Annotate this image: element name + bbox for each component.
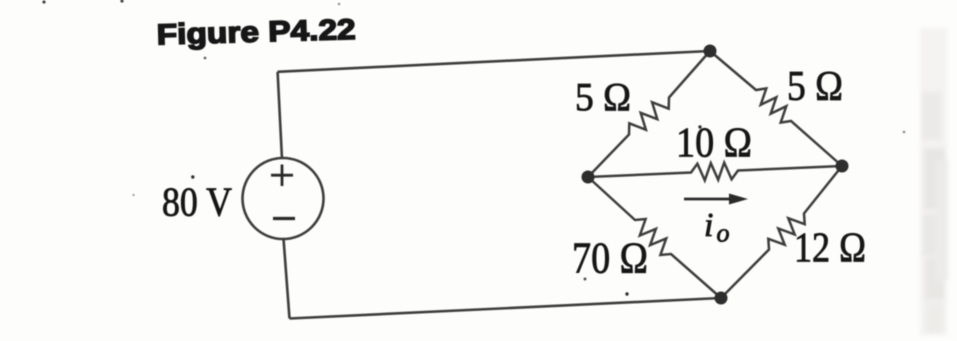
current arrow io	[684, 198, 733, 201]
svg-text:i: i	[704, 207, 713, 244]
node top	[704, 45, 717, 58]
scan smudge right edge	[920, 28, 948, 335]
wire left vertical upper	[278, 72, 282, 159]
resistor R2 5ohm top-right arm	[710, 51, 842, 166]
plus sign	[271, 165, 293, 187]
svg-text:o: o	[717, 219, 730, 248]
node left	[582, 171, 595, 184]
resistor R3 10ohm middle	[588, 163, 842, 181]
wire left vertical lower	[284, 239, 290, 319]
specks	[42, 0, 45, 3]
svg-text:5 Ω: 5 Ω	[787, 63, 843, 110]
svg-text:12 Ω: 12 Ω	[794, 225, 866, 272]
svg-text:5 Ω: 5 Ω	[575, 75, 631, 120]
resistor R5 12ohm bottom-right arm	[721, 166, 842, 298]
resistor R1 5ohm top-left arm	[588, 51, 710, 177]
wire top horizontal	[278, 51, 710, 72]
minus sign	[273, 217, 295, 220]
svg-text:80 V: 80 V	[162, 179, 232, 225]
resistor R4 70ohm bottom-left arm	[588, 177, 721, 298]
wire bottom horizontal	[290, 298, 722, 319]
svg-text:10 Ω: 10 Ω	[676, 120, 752, 167]
node bottom	[715, 292, 728, 305]
voltage source V1 circle	[243, 158, 324, 239]
svg-text:70 Ω: 70 Ω	[572, 234, 648, 283]
node right	[836, 160, 849, 173]
svg-text:Figure P4.22: Figure P4.22	[156, 14, 356, 52]
